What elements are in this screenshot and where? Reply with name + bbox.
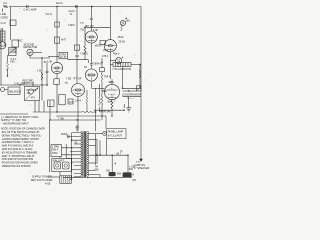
svg-text:1 M-4: 1 M-4 [75,100,82,103]
svg-text:P 7: P 7 [76,127,80,130]
svg-text:7 B04 b: 7 B04 b [93,62,102,65]
svg-text:6.3K: 6.3K [47,61,52,64]
svg-text:DETECTOR: DETECTOR [24,46,38,49]
svg-text:-OPERATION AS SHOWN: -OPERATION AS SHOWN [1,165,31,168]
svg-text:LF 37: LF 37 [60,56,67,59]
svg-text:4MO): 4MO) [61,133,67,136]
svg-text:474: 474 [69,101,74,104]
svg-text:25 A5: 25 A5 [119,41,126,44]
svg-text:7.5A CANDOHM: 7.5A CANDOHM [112,68,131,71]
svg-text:+B 7: +B 7 [116,152,122,155]
svg-text:49a b: 49a b [113,53,120,56]
svg-text:25 b: 25 b [103,49,108,52]
svg-text:600: 600 [11,61,16,64]
svg-text:BALANCE: BALANCE [9,90,21,93]
svg-text:PANEL LAMP: PANEL LAMP [108,131,124,134]
svg-text:Sod b: Sod b [56,2,63,5]
svg-text:4-LB: 4-LB [45,182,51,185]
svg-text:BALLAST: BALLAST [53,159,64,162]
svg-text:474: 474 [31,97,36,100]
svg-text:6.3K: 6.3K [93,29,98,32]
svg-text:WVL 7: WVL 7 [108,100,116,103]
svg-text:TH: TH [65,82,69,85]
svg-text:750: 750 [80,29,85,32]
svg-text:ANT: ANT [61,39,66,42]
svg-text:CORD: CORD [1,16,9,19]
svg-text:7 B5: 7 B5 [66,78,72,81]
svg-text:6V LILLIPUT: 6V LILLIPUT [108,135,123,138]
svg-text:7 786: 7 786 [58,117,65,120]
svg-text:H: H [132,174,134,177]
svg-text:WVR 34b: WVR 34b [100,110,111,113]
svg-text:C——: C—— [128,97,135,100]
svg-text:1 M: 1 M [37,70,41,73]
svg-text:C.W. OSC: C.W. OSC [14,82,26,85]
svg-text:25A: 25A [126,20,131,23]
svg-text:B+ A: B+ A [96,154,102,157]
svg-text:4 80 b.: 4 80 b. [68,24,76,27]
svg-text:OSC: OSC [17,40,23,43]
svg-text:OPR: OPR [52,152,58,155]
svg-text:"C" SPEAKER: "C" SPEAKER [133,167,149,170]
svg-text:T64 4: T64 4 [104,76,111,79]
svg-text:C.W. LAMP: C.W. LAMP [24,8,37,11]
svg-text:1M: 1M [27,92,30,95]
svg-text:7B7 187: 7B7 187 [85,25,95,28]
svg-text:A.C.: A.C. [3,2,8,5]
svg-text:7F7 OF: 7F7 OF [73,78,82,81]
svg-text:MON 7: MON 7 [95,45,104,48]
svg-text:OO: OO [132,179,136,182]
svg-text:Vol 7L: Vol 7L [46,13,54,16]
svg-text:600: 600 [117,172,122,175]
svg-text:.05: .05 [43,61,47,64]
svg-text:.CW: .CW [105,170,111,173]
svg-text:4C: 4C [84,66,87,69]
svg-text:-- MICROPHONE INPUT: -- MICROPHONE INPUT [1,123,29,126]
svg-text:600: 600 [95,168,100,171]
svg-text:4 LP: 4 LP [1,22,6,25]
svg-text:750k: 750k [102,90,108,93]
svg-text:COND.: COND. [9,51,17,54]
svg-text:25A6: 25A6 [118,36,124,39]
svg-text:7 3x 05: 7 3x 05 [80,53,89,56]
svg-text:7.5: 7.5 [80,22,84,25]
svg-text:478 b: 478 b [102,55,109,58]
